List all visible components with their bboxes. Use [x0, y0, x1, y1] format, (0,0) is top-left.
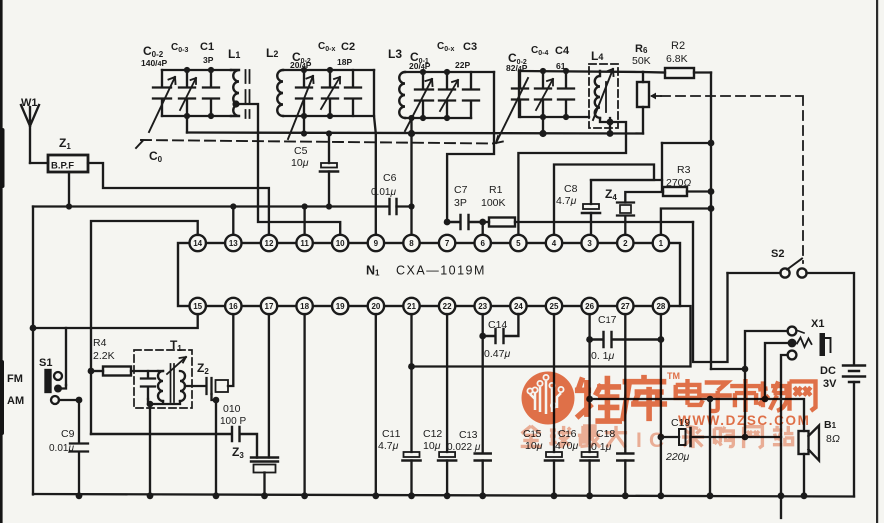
svg-text:L2: L2: [266, 46, 278, 60]
tank4 bottom rail: [519, 71, 589, 117]
node tank2 dots: [301, 67, 307, 73]
ground bus junction dots: [76, 492, 83, 499]
wire supply to jack: [711, 368, 745, 370]
resistor R1 100K: [483, 221, 489, 223]
wire x=710 to ground: [709, 399, 711, 496]
wire pin1 riser: [661, 209, 711, 236]
T1 bottom joins: [148, 399, 180, 404]
ganged tuning line C0 (dashed): [141, 140, 494, 144]
capacitor C6 0.01u: [390, 199, 397, 214]
Z1 B.P.F filter box: [48, 155, 88, 172]
capacitor C7 3P: [444, 219, 451, 226]
svg-text:13: 13: [229, 239, 238, 248]
svg-text:8: 8: [409, 239, 414, 248]
svg-text:12: 12: [265, 239, 274, 248]
wire pin28 to ground: [660, 314, 662, 496]
svg-text:0.01μ: 0.01μ: [49, 443, 74, 454]
svg-text:20: 20: [371, 302, 380, 311]
svg-text:TM: TM: [667, 371, 680, 381]
svg-text:CXA—1019M: CXA—1019M: [396, 264, 486, 278]
variable capacitor C0-2 (tank1): [153, 70, 171, 116]
wire pin22 to ground via C12: [446, 314, 448, 452]
svg-text:010: 010: [223, 403, 241, 415]
capacitor C5 10u electrolytic: [326, 130, 332, 136]
svg-text:0.01μ: 0.01μ: [371, 187, 396, 198]
resistor R2 6.8K: [643, 71, 665, 74]
svg-text:L3: L3: [388, 47, 402, 61]
svg-text:B.P.F: B.P.F: [51, 161, 74, 172]
capacitor C17 0.1u: [590, 332, 661, 347]
T1 secondary coil: [180, 371, 185, 401]
capacitor C1 3P: [203, 70, 219, 116]
wire left rail x=33: [32, 207, 34, 495]
IC N1 CXA-1019M body: [178, 243, 680, 306]
antenna W1: [21, 105, 39, 163]
trimmer capacitor C0-4 (tank4): [535, 71, 551, 117]
svg-text:20/4P: 20/4P: [409, 61, 431, 71]
node dots on AGC line: [230, 203, 236, 209]
svg-text:26: 26: [585, 302, 594, 311]
wire pin26 to ground via C16: [588, 314, 590, 452]
svg-text:C11: C11: [382, 428, 401, 440]
capacitor C16 470u: [582, 452, 598, 457]
node tank1 rail dots: [184, 67, 190, 73]
T1 capacitor: [141, 371, 155, 399]
inductor L1: [231, 70, 239, 116]
capacitor C8 4.7u electrolytic: [591, 180, 662, 204]
wire jack middle contact to speaker line: [765, 343, 788, 399]
node tank3 dots: [420, 69, 426, 75]
wire pin18 to ground: [303, 314, 305, 496]
svg-text:C: C: [649, 429, 664, 452]
svg-text:20/4P: 20/4P: [290, 60, 312, 70]
IC pin circles top row: [190, 235, 670, 314]
svg-text:7: 7: [445, 239, 450, 248]
capacitor C3 22P: [463, 72, 479, 118]
svg-text:0. 1μ: 0. 1μ: [591, 350, 615, 362]
tank3 top rail: [405, 71, 494, 73]
T1 tuning arrow: [167, 357, 186, 374]
svg-text:14: 14: [193, 239, 202, 248]
variable capacitor C0-2 (tank4): [512, 71, 528, 117]
capacitor C4: [558, 71, 574, 117]
speaker B1: [799, 431, 809, 454]
wire BPF output to pin 12: [88, 163, 269, 235]
svg-text:220μ: 220μ: [665, 451, 690, 463]
wire pin27 to ground via C18: [624, 314, 626, 452]
svg-text:4.7μ: 4.7μ: [556, 195, 577, 207]
wire audio line y=399: [590, 399, 804, 431]
ceramic resonator Z2: [185, 385, 206, 387]
wire tank3 right edge to pin 7: [447, 72, 494, 222]
watermark medium chars: [676, 379, 703, 405]
wire pin15 to left rail: [33, 314, 198, 328]
capacitor C13 0.022u: [475, 454, 491, 461]
X1 plug: [797, 338, 812, 348]
svg-text:L1: L1: [228, 47, 240, 61]
capacitor C10 100P line: [91, 427, 257, 458]
svg-text:X1: X1: [811, 318, 824, 330]
capacitor C18 0.1u: [617, 454, 633, 461]
battery DC 3V: [843, 366, 865, 383]
node AM line diamond: [408, 130, 415, 137]
wire L4 bottom taps: [600, 118, 610, 134]
svg-text:11: 11: [300, 239, 309, 248]
svg-text:FM: FM: [7, 373, 23, 385]
resistor R4 2.2K: [88, 368, 95, 375]
watermark big chars WeiKu: [575, 376, 622, 421]
wire vcc drop to S2: [693, 222, 728, 362]
svg-text:15: 15: [193, 302, 202, 311]
node L1 tap: [232, 100, 239, 107]
R6 wiper arrow: [652, 95, 661, 97]
svg-text:I: I: [636, 429, 642, 452]
svg-text:10μ: 10μ: [291, 157, 309, 169]
wire vcc line y=366: [412, 306, 691, 367]
svg-text:S1: S1: [39, 357, 52, 369]
capacitor C12 10u: [439, 452, 455, 457]
svg-text:C7: C7: [454, 184, 468, 196]
capacitor C19 220u: [661, 436, 679, 438]
ground bus: [33, 494, 854, 497]
svg-text:10μ: 10μ: [423, 440, 441, 452]
svg-text:3P: 3P: [203, 55, 214, 65]
svg-text:10: 10: [336, 239, 345, 248]
capacitor C11 4.7u: [404, 452, 420, 457]
svg-text:16: 16: [229, 302, 238, 311]
svg-text:R1: R1: [489, 184, 503, 196]
trimmer capacitor C0-3 (tank1): [179, 70, 195, 116]
svg-text:1: 1: [659, 239, 664, 248]
svg-text:2: 2: [623, 239, 628, 248]
svg-text:C17: C17: [598, 314, 617, 326]
tank2 bottom rail: [283, 115, 374, 117]
svg-text:18P: 18P: [337, 57, 352, 67]
resistor R6 50K: [642, 72, 644, 82]
node tank4 dots: [540, 68, 546, 74]
wire S1 lower to C9: [59, 399, 79, 401]
capacitor C9 0.01u: [70, 400, 88, 496]
wire frame pin14: [91, 221, 198, 434]
inductor L2: [277, 70, 283, 116]
capacitor C14 0.47u: [483, 314, 519, 343]
wire y=143: [662, 142, 711, 144]
svg-text:22P: 22P: [455, 60, 470, 70]
svg-text:R3: R3: [677, 164, 691, 176]
watermark logo circle: [522, 372, 575, 425]
wire tank2 right edge to pin 9: [374, 70, 376, 235]
svg-text:50K: 50K: [632, 55, 651, 67]
wire pin17 to Z3: [268, 314, 270, 458]
svg-text:3P: 3P: [454, 197, 467, 209]
wire Z2 tap to bus: [212, 394, 217, 496]
wire tank2 bottom to AM line: [303, 116, 305, 134]
svg-text:17: 17: [265, 302, 274, 311]
svg-text:27: 27: [621, 302, 630, 311]
svg-text:W1: W1: [21, 97, 38, 109]
svg-text:C9: C9: [61, 428, 75, 440]
wire jack top contact: [745, 331, 788, 437]
capacitor C15 10u: [546, 452, 562, 457]
wire L4 tap to pin 5: [518, 122, 626, 235]
svg-text:3V: 3V: [823, 378, 837, 390]
svg-text:C2: C2: [341, 41, 355, 53]
tank2 top rail: [283, 69, 374, 71]
variable capacitor C0-2 (tank2): [296, 70, 312, 116]
svg-text:B1: B1: [824, 419, 837, 431]
svg-text:100K: 100K: [481, 197, 506, 209]
svg-text:0.47μ: 0.47μ: [484, 348, 510, 360]
tank1 top rail: [162, 69, 231, 71]
svg-text:0.022 μ: 0.022 μ: [447, 442, 481, 453]
wire supply rail x=711: [710, 73, 712, 370]
svg-text:R4: R4: [93, 337, 107, 349]
wire pin25 to ground via C15: [553, 314, 555, 452]
svg-text:100 P: 100 P: [220, 416, 246, 427]
wire pin4 riser: [554, 165, 654, 236]
left scan bar: [0, 0, 3, 523]
svg-text:270Ω: 270Ω: [666, 177, 692, 189]
wire pin21 to ground via C11: [410, 314, 412, 452]
svg-text:22: 22: [443, 302, 452, 311]
svg-text:C1: C1: [200, 41, 214, 53]
inductor L3: [399, 72, 405, 118]
svg-text:AM: AM: [7, 395, 24, 407]
wire pin20 to ground: [375, 314, 377, 496]
wire AGC line y=206: [33, 205, 388, 207]
svg-text:C3: C3: [463, 41, 477, 53]
svg-text:C5: C5: [294, 145, 308, 157]
wire pin23 to ground via C13: [482, 314, 484, 452]
svg-text:19: 19: [336, 302, 345, 311]
watermark light row: [521, 426, 794, 452]
ceramic resonator Z3: [251, 458, 278, 462]
svg-text:C4: C4: [555, 45, 570, 57]
tank1 bottom rail: [162, 115, 231, 117]
wire tank1 bottom to AM line: [186, 116, 188, 133]
discriminator transformer T1 dashed box: [134, 350, 192, 408]
capacitor C2 18P: [345, 70, 361, 116]
svg-text:28: 28: [656, 302, 665, 311]
svg-text:5: 5: [516, 239, 521, 248]
svg-text:18: 18: [300, 302, 309, 311]
variable capacitor C0-1 (tank3): [415, 72, 433, 118]
tank4 top rail to R6: [519, 71, 643, 72]
svg-text:6.8K: 6.8K: [666, 53, 688, 65]
wire pin11 riser: [303, 207, 305, 236]
svg-text:61: 61: [556, 61, 566, 71]
wire S2 to battery: [807, 273, 855, 364]
svg-text:24: 24: [514, 302, 523, 311]
svg-text:23: 23: [478, 302, 487, 311]
svg-text:21: 21: [407, 302, 416, 311]
svg-text:4.7μ: 4.7μ: [378, 440, 399, 452]
wire BPF bottom to AGC line: [68, 172, 70, 206]
wire pin6 riser: [482, 222, 484, 235]
wire antenna to BPF: [30, 162, 48, 164]
L4 adjustment arrow: [593, 69, 613, 120]
right scan border: [876, 0, 878, 523]
svg-text:R2: R2: [671, 40, 685, 52]
svg-text:C6: C6: [383, 172, 397, 184]
inductor L4 dashed shield box: [589, 64, 618, 128]
wire pin13 riser: [232, 207, 234, 236]
switch S1: [65, 328, 67, 385]
trimmer capacitor C0-x (tank2): [322, 70, 338, 116]
svg-text:C8: C8: [564, 183, 578, 195]
wire jack bottom contact down: [781, 355, 788, 518]
earphone jack X1 contacts: [788, 327, 797, 336]
wire AM line y=133: [187, 133, 643, 134]
wire x=662 to R3: [661, 143, 663, 192]
svg-text:140/4P: 140/4P: [141, 58, 167, 68]
svg-text:82/4P: 82/4P: [506, 63, 528, 73]
svg-text:2.2K: 2.2K: [93, 350, 115, 362]
T1 primary coil: [158, 371, 163, 401]
svg-text:3: 3: [587, 239, 592, 248]
svg-text:L4: L4: [591, 49, 603, 63]
wire tank4 bottom to AM line: [542, 117, 544, 134]
wire T1 to ground bus: [149, 404, 151, 496]
switch S2: [780, 268, 789, 277]
tank3 bottom rail: [405, 117, 471, 119]
svg-text:25: 25: [550, 302, 559, 311]
svg-text:8Ω: 8Ω: [826, 433, 840, 445]
T1 core: [171, 364, 175, 402]
svg-text:S2: S2: [771, 248, 784, 260]
wire L1 tap to pin 10: [236, 104, 340, 235]
dzsc.com red watermark: [522, 371, 816, 428]
svg-text:C13: C13: [459, 429, 478, 441]
svg-text:DC: DC: [820, 365, 836, 377]
L1 core (dashed): [246, 70, 250, 118]
trimmer capacitor C0-x (tank3): [439, 72, 455, 118]
svg-text:9: 9: [374, 239, 379, 248]
wire S2 sense (dashed): [661, 96, 803, 263]
svg-text:C12: C12: [423, 428, 442, 440]
node BPF bottom junction: [66, 203, 72, 209]
ceramic filter Z4: [617, 203, 634, 236]
resistor R3 270ohm: [662, 190, 663, 192]
svg-text:6: 6: [480, 239, 485, 248]
wire tank3 bottom riser to pin 8: [410, 118, 412, 235]
svg-text:C14: C14: [488, 319, 507, 331]
svg-text:4: 4: [552, 239, 557, 248]
inductor L4 coil: [595, 71, 600, 118]
